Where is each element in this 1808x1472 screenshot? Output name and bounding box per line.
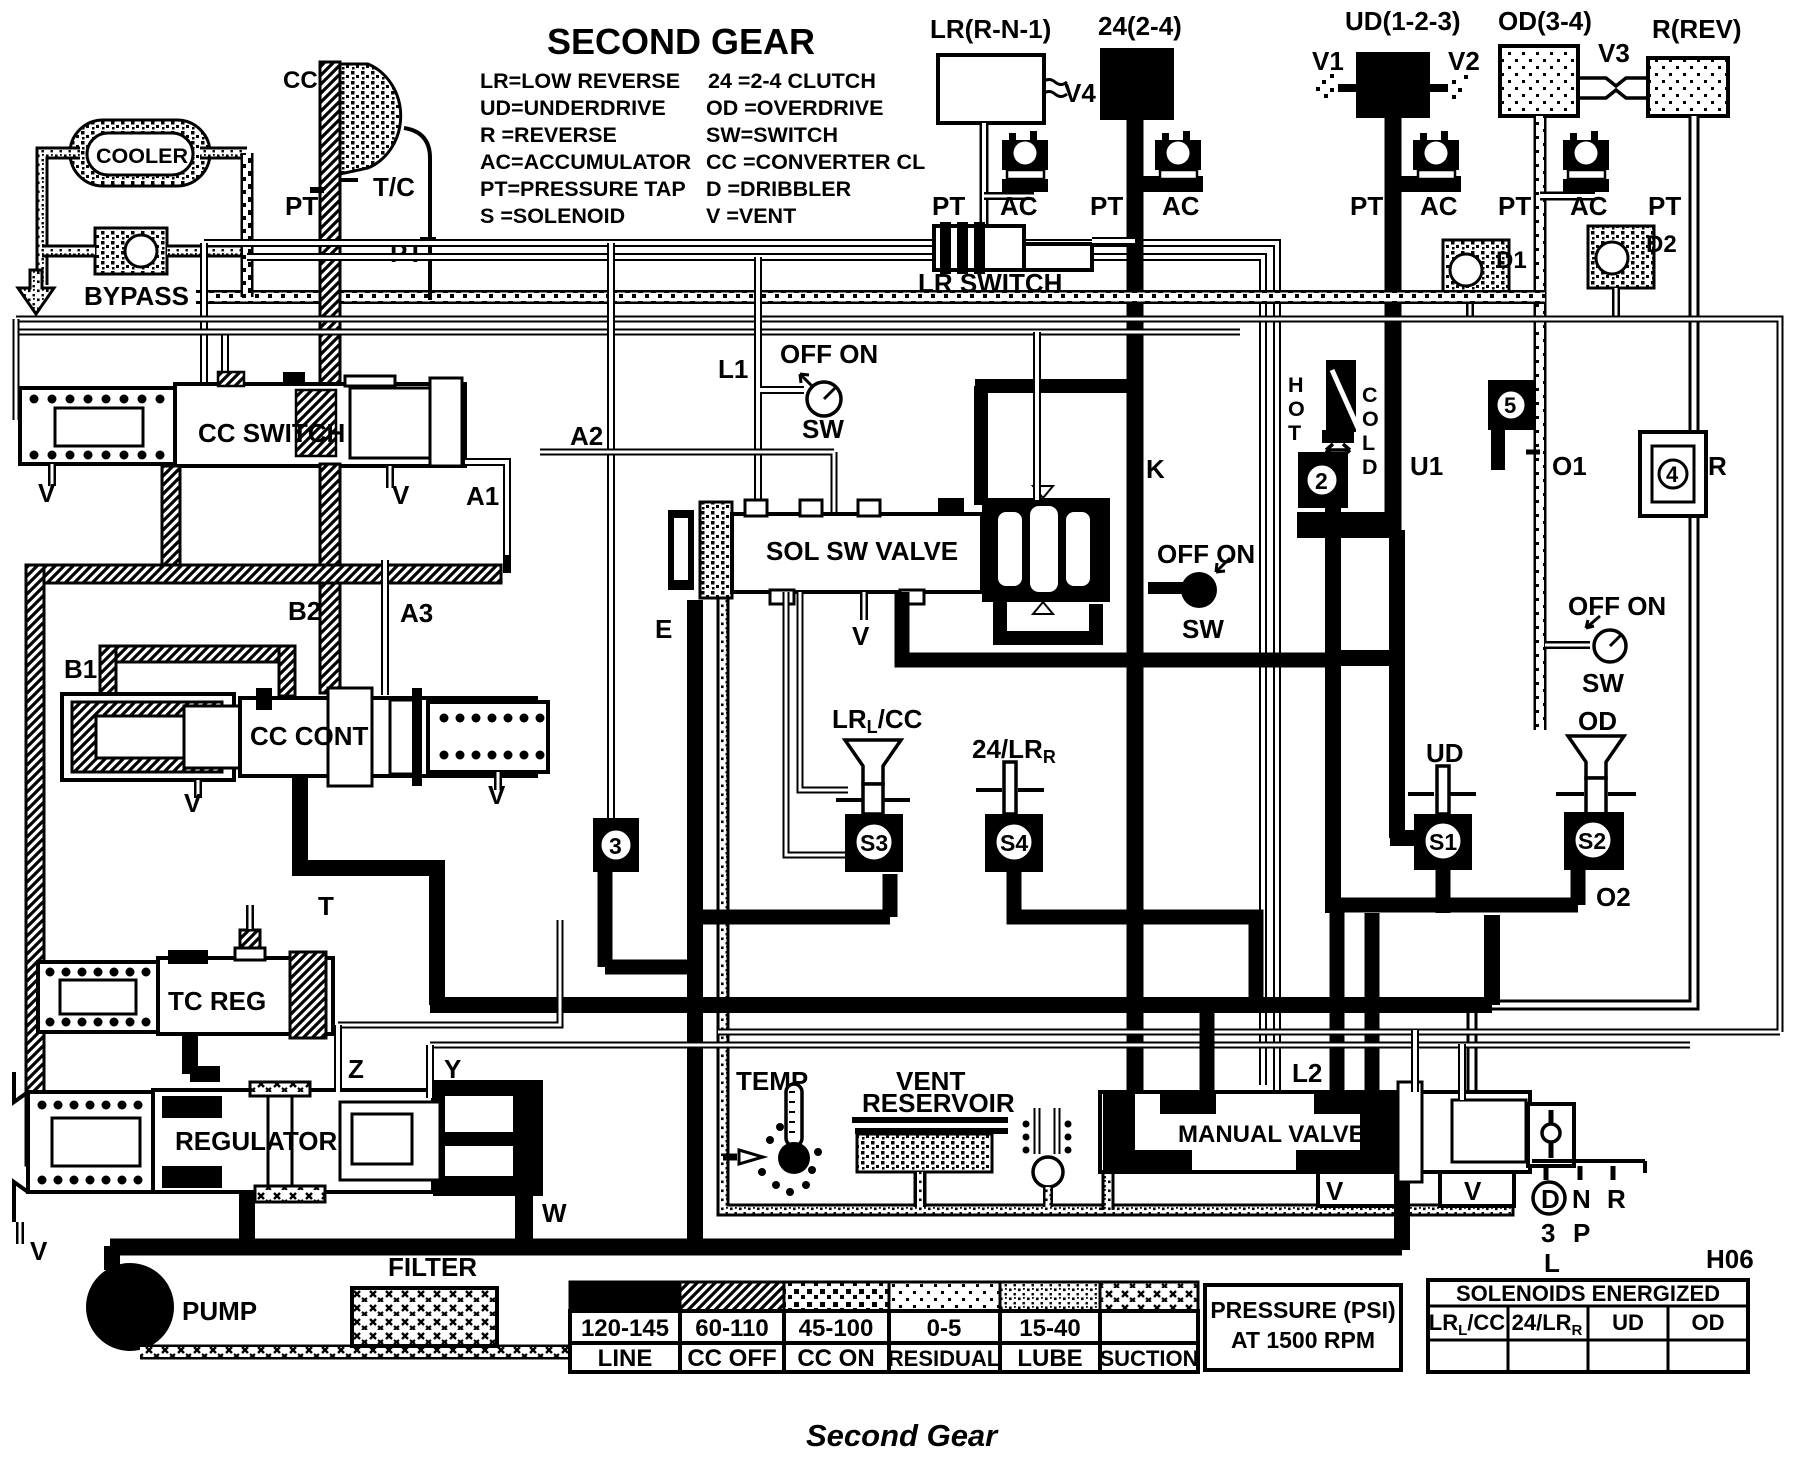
pump bbox=[86, 1263, 174, 1351]
svg-text:D =DRIBBLER: D =DRIBBLER bbox=[706, 177, 852, 201]
svg-text:PT: PT bbox=[1498, 191, 1531, 221]
wire node2 thin feed loop bbox=[1024, 243, 1277, 1092]
svg-text:CC SWITCH: CC SWITCH bbox=[198, 418, 345, 448]
wire bus under 3 and S3 bbox=[605, 872, 695, 967]
node A3 thin line into CC CONT bbox=[385, 555, 507, 695]
wire CC hatched line into T/C bbox=[320, 62, 340, 464]
svg-text:O: O bbox=[1288, 397, 1305, 421]
svg-text:Y: Y bbox=[444, 1054, 461, 1084]
svg-text:LR=LOW REVERSE: LR=LOW REVERSE bbox=[480, 69, 680, 93]
valve CC CONT spring housing left bbox=[62, 694, 240, 780]
svg-text:O: O bbox=[1362, 407, 1379, 431]
wire S3 output down bbox=[695, 874, 890, 917]
cooler bbox=[70, 120, 210, 186]
solenoid S4 stem bbox=[1004, 762, 1016, 814]
wire S1 S2 output bus to manual valve bbox=[1337, 870, 1578, 1093]
svg-text:2: 2 bbox=[1315, 468, 1328, 494]
svg-text:3: 3 bbox=[1541, 1218, 1555, 1248]
accumulator AC (LR) bbox=[1002, 131, 1048, 192]
svg-text:AC: AC bbox=[1162, 191, 1200, 221]
svg-text:45-100: 45-100 bbox=[799, 1315, 874, 1342]
svg-text:A1: A1 bbox=[466, 481, 499, 511]
valve CC SWITCH body bbox=[175, 372, 465, 466]
wire hatched left edge down bbox=[26, 565, 44, 1165]
node W stem black bbox=[515, 1196, 533, 1250]
solenoid S1 stem bbox=[1437, 766, 1449, 814]
svg-text:V: V bbox=[30, 1236, 48, 1266]
svg-text:SW: SW bbox=[802, 414, 844, 444]
valve SOL SW VALVE body bbox=[732, 498, 982, 604]
vent V under regulator bbox=[16, 1222, 24, 1244]
svg-text:PT: PT bbox=[1350, 191, 1383, 221]
svg-text:Z: Z bbox=[348, 1054, 364, 1084]
node B1 hatched loop bbox=[100, 646, 295, 662]
solenoid S2 bbox=[1564, 812, 1624, 870]
wire R line down (residual) bbox=[1472, 116, 1694, 1095]
vent V4 bbox=[1043, 80, 1067, 97]
svg-text:24(2-4): 24(2-4) bbox=[1098, 11, 1182, 41]
wire E line (line pressure) bbox=[687, 600, 703, 1247]
svg-text:A3: A3 bbox=[400, 598, 433, 628]
valve REGULATOR body bbox=[153, 1082, 433, 1202]
node 4 bbox=[1640, 432, 1706, 516]
svg-text:H: H bbox=[1288, 373, 1304, 397]
svg-text:S1: S1 bbox=[1429, 829, 1457, 855]
valve CC CONT body bbox=[240, 688, 536, 786]
svg-text:V =VENT: V =VENT bbox=[706, 204, 796, 228]
svg-text:SUCTION: SUCTION bbox=[1100, 1346, 1199, 1371]
svg-text:AC: AC bbox=[1420, 191, 1458, 221]
wire OD line down (residual) bbox=[1534, 116, 1547, 730]
shift positions D N R 3 P L bbox=[1533, 1182, 1565, 1214]
svg-text:0-5: 0-5 bbox=[927, 1315, 962, 1342]
wire cooler right pipe down to converter-out bus bbox=[42, 153, 247, 251]
svg-text:V: V bbox=[38, 478, 56, 508]
svg-text:PRESSURE (PSI): PRESSURE (PSI) bbox=[1210, 1297, 1395, 1323]
svg-text:3: 3 bbox=[609, 833, 622, 859]
svg-text:V: V bbox=[488, 780, 506, 810]
wire line riser from bus to manual valve bbox=[1200, 1005, 1215, 1093]
wire UD line down bbox=[1385, 118, 1402, 530]
svg-text:LUBE: LUBE bbox=[1017, 1345, 1082, 1372]
svg-text:K: K bbox=[1146, 454, 1165, 484]
torque converter T/C dome bbox=[340, 64, 401, 174]
svg-text:LR(R-N-1): LR(R-N-1) bbox=[930, 14, 1051, 44]
wire converter-out stippled bus bbox=[196, 290, 1545, 304]
wire manual valve to bottom bus riser bbox=[1394, 1170, 1410, 1250]
svg-text:15-40: 15-40 bbox=[1019, 1315, 1080, 1342]
svg-text:SECOND GEAR: SECOND GEAR bbox=[547, 21, 815, 62]
svg-text:PT: PT bbox=[932, 191, 965, 221]
svg-text:LRL/CC: LRL/CC bbox=[1429, 1310, 1506, 1339]
svg-text:V: V bbox=[852, 621, 870, 651]
svg-text:V: V bbox=[1464, 1176, 1482, 1206]
torque converter body outline bbox=[340, 128, 430, 300]
valve REGULATOR right section bbox=[340, 1080, 543, 1196]
svg-text:LRL/CC: LRL/CC bbox=[832, 704, 923, 737]
svg-text:OD: OD bbox=[1692, 1310, 1725, 1335]
svg-text:U1: U1 bbox=[1410, 451, 1443, 481]
svg-text:120-145: 120-145 bbox=[581, 1315, 669, 1342]
svg-text:V3: V3 bbox=[1598, 38, 1630, 68]
svg-text:PT=PRESSURE TAP: PT=PRESSURE TAP bbox=[480, 177, 686, 201]
wire pump to line bus bbox=[104, 1246, 120, 1270]
svg-text:C: C bbox=[1362, 383, 1378, 407]
svg-text:V: V bbox=[1326, 1176, 1344, 1206]
svg-text:SOL SW VALVE: SOL SW VALVE bbox=[766, 536, 958, 566]
svg-text:T/C: T/C bbox=[373, 172, 415, 202]
node A2 line down to solenoid 3 bbox=[607, 243, 615, 818]
wire lube riser at manual valve left bbox=[1102, 1095, 1115, 1210]
svg-text:UD: UD bbox=[1426, 738, 1464, 768]
node A1 bbox=[465, 462, 507, 573]
wire S3 feed thin lines from SOL SW VALVE bbox=[786, 592, 848, 855]
svg-text:UD=UNDERDRIVE: UD=UNDERDRIVE bbox=[480, 96, 666, 120]
wire L1 line down from bus bbox=[758, 257, 804, 520]
svg-text:CC ON: CC ON bbox=[797, 1345, 874, 1372]
svg-text:MANUAL VALVE: MANUAL VALVE bbox=[1178, 1121, 1365, 1148]
vent V boxes under manual valve bbox=[1318, 1172, 1514, 1206]
svg-text:BYPASS: BYPASS bbox=[84, 281, 189, 311]
solenoid S1 bbox=[1414, 814, 1472, 870]
wire lube vent loop vertical bbox=[723, 515, 1508, 1210]
bypass valve bbox=[95, 228, 167, 274]
svg-text:D1: D1 bbox=[1496, 247, 1527, 274]
accumulator AC (UD) bbox=[1413, 131, 1459, 192]
wire bypass to cooler return bbox=[167, 251, 247, 296]
svg-text:L2: L2 bbox=[1292, 1058, 1322, 1088]
wire node2 connector to UD line bbox=[1297, 512, 1397, 538]
valve REGULATOR spring housing bbox=[14, 1072, 153, 1222]
svg-text:UD(1-2-3): UD(1-2-3) bbox=[1345, 6, 1461, 36]
svg-text:LINE: LINE bbox=[598, 1345, 653, 1372]
wire LR line down to LR switch bbox=[980, 123, 989, 232]
svg-text:CC: CC bbox=[283, 67, 318, 94]
svg-text:24 =2-4 CLUTCH: 24 =2-4 CLUTCH bbox=[708, 69, 876, 93]
wire thin bus y=257 bbox=[247, 253, 936, 261]
svg-text:PT: PT bbox=[285, 191, 318, 221]
svg-text:V: V bbox=[392, 480, 410, 510]
svg-text:A2: A2 bbox=[570, 421, 603, 451]
svg-text:OFF ON: OFF ON bbox=[1568, 591, 1666, 621]
svg-text:D: D bbox=[1362, 455, 1378, 479]
svg-text:REGULATOR: REGULATOR bbox=[175, 1126, 337, 1156]
wire K line 24 clutch down to manual valve bbox=[1127, 118, 1144, 1100]
valve TC REG body bbox=[158, 948, 333, 1038]
svg-text:AT 1500 RPM: AT 1500 RPM bbox=[1231, 1327, 1375, 1353]
svg-text:O1: O1 bbox=[1552, 451, 1587, 481]
wire thin residual bus y=319 bbox=[16, 319, 1660, 332]
solenoid S2 funnel bbox=[1568, 736, 1624, 778]
wire TC REG output black bbox=[190, 1034, 220, 1074]
svg-text:S3: S3 bbox=[860, 830, 888, 856]
svg-text:D2: D2 bbox=[1646, 231, 1677, 258]
svg-text:L1: L1 bbox=[718, 354, 748, 384]
svg-text:S =SOLENOID: S =SOLENOID bbox=[480, 204, 625, 228]
solenoid S3 funnel bbox=[845, 740, 901, 784]
svg-text:PT: PT bbox=[1648, 191, 1681, 221]
manual valve detent bbox=[1528, 1104, 1574, 1166]
svg-text:LR SWITCH: LR SWITCH bbox=[918, 268, 1062, 298]
svg-text:L: L bbox=[1544, 1248, 1560, 1278]
svg-text:AC: AC bbox=[1000, 191, 1038, 221]
wire cooler left pipe down to bypass arrow bbox=[42, 153, 80, 285]
accumulator AC (OD) bbox=[1563, 131, 1609, 192]
svg-text:CC CONT: CC CONT bbox=[250, 721, 369, 751]
svg-text:V2: V2 bbox=[1448, 46, 1480, 76]
svg-text:O2: O2 bbox=[1596, 882, 1631, 912]
svg-text:B2: B2 bbox=[288, 596, 321, 626]
svg-text:H06: H06 bbox=[1706, 1244, 1754, 1274]
wire thin residual bus y=243 bbox=[204, 239, 936, 247]
svg-text:R: R bbox=[1708, 451, 1727, 481]
svg-text:W: W bbox=[542, 1198, 567, 1228]
svg-text:UD: UD bbox=[1612, 1310, 1644, 1335]
wire right edge residual loop bbox=[338, 319, 1780, 1045]
wire main line bottom bus bbox=[110, 1239, 1402, 1256]
svg-text:CC =CONVERTER CL: CC =CONVERTER CL bbox=[706, 150, 925, 174]
svg-text:AC=ACCUMULATOR: AC=ACCUMULATOR bbox=[480, 150, 692, 174]
wire thin line y=452 to L1 bbox=[540, 452, 834, 512]
wire manual valve top stems bbox=[1415, 1030, 1462, 1100]
valve CC SWITCH spring housing bbox=[20, 388, 175, 464]
svg-text:SW: SW bbox=[1182, 614, 1224, 644]
vent V stems under CC SWITCH bbox=[52, 464, 390, 488]
wire black loop above SOL SW VALVE to K line bbox=[975, 386, 1135, 505]
svg-text:COOLER: COOLER bbox=[96, 144, 188, 168]
svg-text:P: P bbox=[1573, 1218, 1590, 1248]
valve SOL SW VALVE right black section with spools bbox=[982, 486, 1110, 614]
svg-text:4: 4 bbox=[1666, 462, 1679, 487]
svg-text:V: V bbox=[184, 788, 202, 818]
vent V stem SOL SW VALVE bbox=[860, 592, 868, 620]
svg-text:D: D bbox=[1541, 1184, 1560, 1214]
thermal valve HOT COLD bbox=[1288, 360, 1379, 479]
svg-text:OFF ON: OFF ON bbox=[1157, 539, 1255, 569]
svg-text:SW=SWITCH: SW=SWITCH bbox=[706, 123, 838, 147]
node 2 bbox=[1298, 452, 1348, 508]
valve TC REG spring housing bbox=[38, 962, 158, 1032]
wire suction bus to filter bbox=[140, 1345, 640, 1360]
svg-text:CC OFF: CC OFF bbox=[687, 1345, 776, 1372]
solenoid S3 bbox=[845, 814, 903, 872]
bypass arrow bbox=[18, 270, 54, 314]
wire hatched bus y=573 bbox=[26, 565, 501, 583]
svg-text:Second Gear: Second Gear bbox=[806, 1418, 999, 1453]
svg-text:T: T bbox=[318, 891, 334, 921]
shift detent gate ticks bbox=[1546, 1166, 1613, 1180]
wire S4 output down right bbox=[1014, 872, 1256, 1005]
node B2 hatched drop to CC CONT bbox=[320, 583, 340, 693]
vent valve bbox=[1023, 1108, 1072, 1207]
svg-text:TC REG: TC REG bbox=[168, 986, 266, 1016]
svg-text:S2: S2 bbox=[1578, 828, 1606, 854]
wire CC CONT output (line pressure) bbox=[300, 778, 437, 1005]
svg-text:OD: OD bbox=[1578, 706, 1617, 736]
switch LR SWITCH bbox=[934, 222, 1135, 274]
solenoids energized table bbox=[1428, 1280, 1748, 1372]
svg-text:AC: AC bbox=[1570, 191, 1608, 221]
svg-text:L: L bbox=[1362, 431, 1375, 455]
svg-text:OD(3-4): OD(3-4) bbox=[1498, 6, 1592, 36]
wire hatched CC-off drops under CC SWITCH bbox=[162, 466, 180, 574]
wire line bus y=999 bbox=[430, 915, 1492, 1005]
dribbler D1 bbox=[1443, 240, 1509, 319]
wire line-pressure bus under SOL SW VALVE bbox=[902, 592, 1340, 660]
svg-text:5: 5 bbox=[1504, 393, 1516, 418]
svg-text:V4: V4 bbox=[1064, 78, 1096, 108]
vent V stems under CC CONT bbox=[198, 772, 498, 798]
svg-text:R =REVERSE: R =REVERSE bbox=[480, 123, 617, 147]
svg-text:B1: B1 bbox=[64, 654, 97, 684]
accumulator AC (24) bbox=[1155, 131, 1201, 192]
svg-text:FILTER: FILTER bbox=[388, 1252, 477, 1282]
svg-text:RESERVOIR: RESERVOIR bbox=[862, 1088, 1015, 1118]
valve CC CONT spring right bbox=[428, 702, 548, 772]
svg-text:T: T bbox=[1288, 421, 1301, 445]
svg-text:N: N bbox=[1572, 1184, 1591, 1214]
valve MANUAL VALVE body bbox=[1100, 1082, 1530, 1182]
node 3 solenoid feed box bbox=[593, 818, 639, 872]
svg-text:SOLENOIDS ENERGIZED: SOLENOIDS ENERGIZED bbox=[1456, 1281, 1720, 1306]
wire left feed down from bus bbox=[204, 243, 225, 388]
legend table pressure patterns bbox=[570, 1282, 1198, 1311]
svg-text:SW: SW bbox=[1582, 668, 1624, 698]
solenoid S4 bbox=[985, 814, 1043, 872]
svg-text:R: R bbox=[1607, 1184, 1626, 1214]
svg-text:S4: S4 bbox=[1000, 830, 1028, 856]
svg-text:OFF ON: OFF ON bbox=[780, 339, 878, 369]
svg-text:RESIDUAL: RESIDUAL bbox=[888, 1346, 1000, 1371]
svg-text:E: E bbox=[655, 614, 672, 644]
pressure psi box bbox=[1205, 1285, 1401, 1370]
wire hot/cold leg down to UD line bbox=[1326, 508, 1448, 913]
svg-text:60-110: 60-110 bbox=[695, 1315, 768, 1342]
svg-text:R(REV): R(REV) bbox=[1652, 14, 1742, 44]
node 5 bbox=[1488, 380, 1534, 430]
svg-text:PUMP: PUMP bbox=[182, 1296, 257, 1326]
wire black U loop under SOL SW VALVE bbox=[1000, 602, 1096, 638]
svg-text:V1: V1 bbox=[1312, 46, 1344, 76]
valve SOL SW VALVE left caps bbox=[668, 502, 732, 598]
svg-text:OD =OVERDRIVE: OD =OVERDRIVE bbox=[706, 96, 883, 120]
dribbler D2 bbox=[1588, 226, 1654, 319]
svg-text:PT: PT bbox=[1090, 191, 1123, 221]
wire regulator to bottom bus bbox=[239, 1192, 255, 1250]
